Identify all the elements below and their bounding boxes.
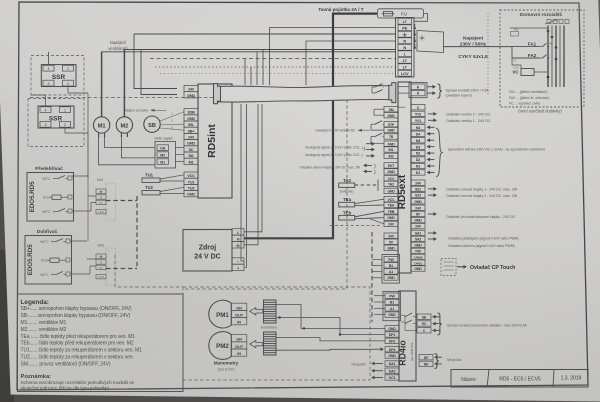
switch TR [371,136,375,138]
wire comb2 b [276,348,374,351]
terminal RD5ext TEB [384,209,398,214]
wire TU1 b [160,180,184,182]
sensor TEa [339,202,355,207]
terminal RD5int M2 [184,152,198,158]
arrow C back [435,329,440,331]
terminal RD5ext D3 [411,144,425,149]
terminal RD5ext GND [411,199,425,204]
terminal earth [398,31,412,37]
terminal block N [398,38,412,44]
wire SM stub [374,108,384,110]
terminal RD4io PW [385,293,399,298]
wire SB pin1 [160,112,184,121]
terminal RD5ext GND [384,113,398,118]
terminal RD5ext GND [411,266,425,271]
terminal SSR1-4 [43,65,54,71]
divider box [155,142,176,169]
wire CP links [372,259,382,261]
wire SB pin2 [160,123,184,125]
wire mains thick [244,14,377,239]
terminal RD4io DP1 [385,332,399,337]
arrow SE in [435,316,440,318]
terminal RD5ext GND [384,215,398,220]
terminal RD5ext GND [411,242,425,247]
wire VC [512,58,548,72]
arrow vent 2 [429,133,434,135]
terminal RD4io DP3 [385,347,399,352]
terminal SA2 PE [96,254,106,258]
arrow vent 4 [429,146,434,148]
pin M1 stubs [98,133,100,137]
wire TU1 a [160,175,184,179]
wire FA2 drop [511,47,513,58]
terminal SSR1-3 [43,80,54,86]
module RD4io [399,291,416,381]
terminal RD4io SE [417,314,431,319]
terminal RD5ext PW [411,248,425,253]
junction marks [414,27,416,29]
arrow DA2 [374,370,383,372]
terminal RD5ext SA2 [411,236,425,241]
terminal RD5int SB- [184,121,198,127]
terminal RD5ext CAN(H) [411,254,425,259]
wire PE stub [244,104,258,245]
ribbon connector left [214,84,221,104]
wire PE bus [510,27,548,29]
ribbon connector right [389,83,396,103]
terminal 24V top [184,86,198,92]
terminal RD5int GND [184,115,198,121]
terminal SSR2-3 [40,121,51,127]
relay contact block K [409,83,427,98]
terminal RD4io GND [385,312,399,317]
wire TE gnd [370,219,384,224]
arrow EXT [366,164,372,166]
sensor TU1 [142,178,160,182]
terminal RD5ext GND [384,245,398,250]
wire drop a [244,59,246,86]
terminal RD5ext IN1 [384,147,398,152]
terminal RD5ext N4 [411,125,425,130]
terminal RD5int TU1 [184,178,198,184]
arrow SZ1 [428,188,434,190]
terminal K2 [411,90,425,95]
switch SC [401,321,405,323]
wire preheater links [72,196,96,211]
dashed stub TEa zone [330,225,381,227]
terminal block LT [398,18,412,24]
sensor TU2 [142,191,160,195]
wire M1 power [101,52,103,117]
wire comb1 a [276,305,385,329]
terminal PM1 OUT [231,310,247,317]
terminal RD5ext D2 [411,157,425,162]
terminal GND top [184,92,198,98]
terminal RD4io DP2 [385,338,399,343]
wire SSR2 out [65,127,88,133]
motor M2 [116,117,132,133]
wire PW strip stubs [374,295,385,297]
terminal PEz [232,242,244,248]
terminal RD5ext GND [384,275,398,280]
terminal RD5ext CAN(L) [411,260,425,265]
terminal RD5int M1 [184,158,198,164]
terminal RD5ext 24V [384,233,398,238]
wire K links [398,86,409,88]
dashed riser ext damper [136,196,138,269]
arrow NF [437,363,442,365]
wire C internal [398,106,405,108]
dashed bus LT2 [155,66,396,68]
terminal RD5ext TA2 [384,181,398,186]
terminal RD5int SB+ [184,127,198,133]
terminal RD4io GND [385,353,399,358]
dashed wire SA1 out [106,200,137,202]
connector comb K1 [264,300,277,323]
arrow IN2 [366,155,372,157]
terminal plus [232,264,244,270]
power supply Zdroj 24V DC [183,230,232,272]
terminal RD5int GND [184,140,198,146]
wire M2 link [176,154,185,156]
wire comb2 a [276,338,385,341]
terminal K1 [411,84,425,89]
arrow OC1 [374,377,383,379]
wire GND drop [141,50,177,95]
arrow K out 2 [428,92,434,94]
wire M1 link [176,161,185,163]
wire SSR2 feed [31,95,46,107]
terminal SA1 N [96,195,106,199]
terminal RD5ext IN2 [384,153,398,158]
arrow DF [437,356,442,358]
terminal PM1 GN [231,303,247,310]
wire fan bus [102,51,396,53]
terminal RD5int SDB [184,109,198,115]
switch K contacts [372,86,375,88]
relay SSR2 [38,106,74,128]
terminal RD5ext YV1 [411,118,425,123]
terminal block L [398,51,412,57]
wire M1 sense [99,137,155,165]
wire TU2 b [160,193,184,195]
arrow GND TR [366,143,372,145]
terminal RD5ext VCC [384,176,398,181]
terminal RD5ext SM [384,107,398,112]
terminal block LT [398,64,412,70]
terminal block enclosure [396,18,415,78]
wire SSR1 feed [48,52,50,66]
manometer PM2 [209,332,232,360]
wire C int [404,315,406,330]
switch STP [371,123,375,125]
terminal RD5ext PW [384,257,398,262]
terminal RD5ext N3 [411,138,425,143]
brace heating [438,84,442,98]
wire minus from ribbon [241,104,244,261]
module RD5ext [398,82,411,273]
wire SB pin3 [160,128,184,130]
wire drop d [262,50,264,86]
wire comb1 b [276,318,385,335]
wire reheater links [70,241,96,274]
arrow DP3 in [374,348,381,350]
terminal RD5ext B1 [384,263,398,268]
terminal RD5ext SZ2 [411,192,425,197]
wire M2 power [123,50,125,117]
arrow vent 8 [429,171,434,173]
wire GND bus [124,49,396,51]
dashed enclosure SSR2 [28,99,84,147]
wire plus from ribbon [244,104,247,267]
servo SB [144,116,160,132]
relay SSR1 [41,65,76,87]
terminal RD5int SC [184,146,198,152]
terminal block PE [398,25,412,31]
terminal RD4io DA1 [385,361,399,366]
dotted riser before rozvadec [487,13,489,95]
dashed bus LT1 [150,58,396,60]
fuse FU assembly [378,9,424,18]
arrow vent 7 [429,165,434,167]
terminal RD4io DF [419,355,433,360]
terminal RD4io SC [417,321,431,326]
arrow vent 6 [429,159,434,161]
terminal RD5ext D1 [411,170,425,175]
terminal SSR2-4 [40,107,51,113]
pin M2 stubs [120,133,122,137]
arrow DA1 [374,363,383,365]
connector PW strip [383,292,401,321]
dashed bus LCV [160,73,396,75]
wire fuse to block [414,13,428,21]
terminal SSR1-1 [63,65,74,71]
terminal RD5ext GND [384,127,398,132]
wire SSR1 out [68,86,88,93]
terminal RD5ext D4 [411,131,425,136]
terminal RD5ext VCC [384,197,398,202]
terminal SA1 LCV [96,210,106,214]
wire TEa pair [355,199,384,203]
terminal RD4io OC1 [385,375,399,380]
brace vetrani [436,128,442,177]
arrow SC in [435,323,440,325]
terminal RD5ext 24V [411,205,425,210]
terminal RD4io DA2 [385,368,399,373]
terminal RD4io NF [419,361,433,366]
terminal block LCV [398,70,412,76]
dashed zone manometers [183,287,370,380]
wire N return [306,41,396,85]
sensor TA2 [339,183,355,187]
wire preheater top [72,176,88,178]
arrow 8V [428,213,434,215]
terminal RD4io GND [385,326,399,331]
terminal RD5ext STP [384,122,398,127]
wire PE return [270,28,396,86]
terminal RD5ext SA1 [411,230,425,235]
terminal RD5int TU2 [184,184,198,190]
terminal RD5ext C [411,105,425,110]
wire 24V bus [134,33,396,35]
enclosure Domovni rozvadec [500,10,584,107]
terminal RD5ext GND [384,188,398,193]
dashed enclosure SSR1 [31,56,84,96]
terminal minus [232,258,244,264]
busbar group [547,26,549,88]
dashed zone left foot [115,255,183,287]
terminal M1d [157,159,169,165]
cable sheath symbol [417,31,444,53]
terminal RD5ext 24V [411,223,425,228]
terminal RD5ext 8V [411,211,425,216]
bracket TA2 [377,180,379,192]
dashed riser right [371,232,373,322]
terminal RD5ext SZ1 [411,186,425,191]
arrow GND ext [366,170,372,172]
dashed wire TA2 [355,184,378,186]
arrow SA2o [428,238,434,240]
brace DF [435,354,439,369]
manometer PM1 [209,300,232,328]
wire FA1 bus [550,42,553,44]
arrow CP touch [457,266,464,268]
terminal RD5ext 24V [384,221,398,226]
terminal SA1 PE [96,189,106,193]
wire 24V drop [134,34,177,89]
stamp marks [545,20,569,25]
terminal SA2 LCV [96,275,106,279]
terminal RD4io B1 [385,299,399,304]
arrow SZ2 [428,194,434,196]
wire drop b [250,67,252,85]
terminal RD5int 24V [184,133,198,139]
terminal PM2 IN [231,349,247,356]
arrow SA1o [428,232,434,234]
terminal RD5ext N2 [411,150,425,155]
terminal RD5ext A1 [384,269,398,274]
terminal SA2 N [96,260,106,264]
terminal RD5int VCC [184,172,198,178]
terminal L [232,229,244,235]
terminal SSR2-1 [60,107,71,113]
connector CP strip [382,255,400,284]
terminal RD5ext GND [384,169,398,174]
title block [451,370,588,388]
terminal block N [398,44,412,50]
dashed zone center [30,98,347,290]
terminal SSR2-2 [60,121,71,127]
terminal M2d [157,152,169,158]
fuse FU [384,11,393,16]
brace SE [438,313,442,335]
arrow YV2 [428,113,434,115]
wire M2 sense [121,137,155,158]
wire TEb pair [355,211,384,217]
arrow K out 1 [428,86,434,88]
wire drop c [256,52,258,85]
terminal RD5ext YV2 [411,111,425,116]
ribbon cable [214,86,395,103]
wire heater riser 2 [87,133,89,241]
wire mains to switchboard [444,46,513,48]
hollow arrow PM1 [250,308,263,315]
arrow vent 3 [429,139,434,141]
legend box [18,294,184,392]
terminal block LT [398,57,412,63]
terminal RD5ext TR [384,134,398,139]
terminal RD5int GND [184,191,198,197]
motor M1 [93,117,109,133]
terminal SA2 LT [96,265,106,269]
module RD5int [198,84,232,198]
terminal RD4io A1 [385,306,399,311]
terminal PM2 OUT [231,342,247,349]
wire GN link [176,147,185,149]
terminal RD5ext 24V [411,180,425,185]
switch SE [401,314,405,316]
arrow IN1 [366,149,372,151]
terminal N [232,235,244,241]
terminal RD5ext TEA [384,202,398,207]
wire TU2 a [160,187,184,191]
terminal PM2 GN [231,335,247,342]
terminal RD5ext GND [384,141,398,146]
wire GN sense [105,137,155,148]
sensor TEb [339,215,355,220]
arrow YV1 [428,119,434,121]
terminal RD5ext EXT [384,163,398,168]
hollow arrow PM2 [250,340,263,347]
connector comb K2 [264,332,277,355]
arrow vent 5 [429,152,434,154]
terminal RD5ext 5V [384,239,398,244]
arrow vent 1 [429,126,434,128]
connector CP dashed [441,259,456,276]
terminal RD5ext N1 [411,163,425,168]
terminal PM1 IN [231,318,247,325]
terminal RD4io C [417,328,431,333]
terminal SSR1-2 [63,80,74,86]
dashed wire SA2 out [106,268,137,270]
terminal GN [157,145,169,151]
terminal SA1 LT [96,200,106,204]
terminal RD5ext GND [411,217,425,222]
wire L to ribbon [244,104,262,232]
wire heater riser [87,93,89,178]
